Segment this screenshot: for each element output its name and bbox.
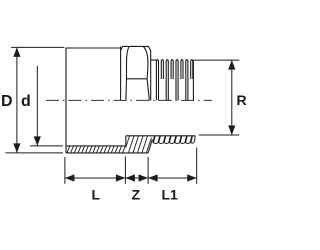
dimension D bottom extension [6, 152, 64, 154]
dimension D arrows [13, 47, 20, 57]
dimension R line [231, 60, 233, 135]
svg-text:D: D [1, 93, 13, 110]
svg-text:R: R [237, 92, 247, 108]
section thread teeth bars [153, 136, 192, 143]
hex right edge [150, 51, 152, 101]
bottom extension line L/Z [124, 157, 126, 184]
socket wall hatch [67, 146, 125, 153]
dimension D top extension [11, 46, 65, 48]
socket body top edge [66, 47, 121, 49]
male end face [192, 60, 194, 100]
hex right face slant [147, 79, 149, 101]
hex top edge [121, 46, 151, 50]
svg-text:L: L [92, 187, 101, 203]
socket body left face [65, 48, 67, 153]
socket end face / hex left edge [120, 46, 122, 100]
dimension R arrows [228, 60, 235, 70]
bottom extension line Z/L1 [147, 157, 149, 184]
section step at socket depth [125, 136, 127, 146]
hex mid horizontal line [127, 78, 148, 80]
bottom dimension line [65, 177, 197, 179]
section bore line socket [66, 145, 126, 147]
thread shank top line [151, 59, 157, 61]
section thread teeth wave [153, 136, 195, 144]
svg-text:Z: Z [132, 187, 141, 203]
dimension L1 arrows [148, 174, 158, 181]
svg-text:L1: L1 [162, 187, 179, 203]
dimension d line [36, 66, 38, 146]
bottom extension line L left [64, 157, 66, 184]
bottom extension line L1 right [196, 148, 198, 184]
hex right chamfer arc [143, 46, 148, 78]
hex left chamfer arc [127, 46, 130, 78]
dimension R bottom extension [199, 134, 239, 136]
thread crest loops [156, 60, 192, 79]
dimension R top extension [194, 59, 240, 61]
dimension d bottom extension [30, 145, 63, 147]
thread root lines lower [156, 79, 188, 100]
section thread chamfer [148, 140, 152, 153]
dimension L arrows [65, 174, 75, 181]
dimension Z arrows [125, 174, 134, 181]
dimension D line [16, 47, 18, 152]
hex left face line [125, 79, 128, 101]
dimension d arrow [34, 136, 41, 146]
section inner line male end [126, 135, 195, 137]
centerline [46, 99, 212, 101]
hex wall hatch [120, 136, 153, 153]
svg-text:d: d [21, 93, 31, 110]
section bottom edge [66, 152, 148, 154]
